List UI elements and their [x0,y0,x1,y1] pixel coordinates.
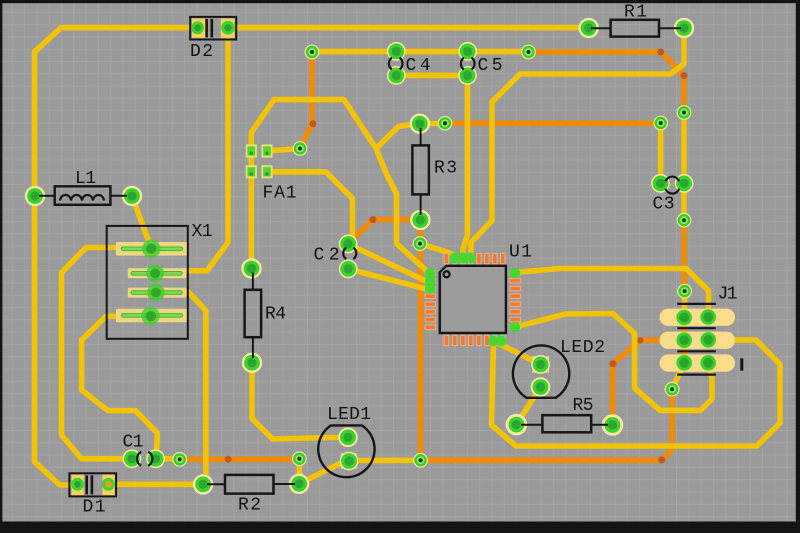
wire top: C1 right pad to via L [156,456,180,462]
wire top: R3 top pad to via D [420,121,445,127]
connector J1 pin pads [676,310,692,326]
junction dot on orange at x312 [310,120,317,127]
resistor R3 pad bottom [410,210,430,230]
capacitor C5 silk arcs [461,58,475,70]
resistor R3 outline [412,128,429,215]
wire top: FA1 left column up, across y99, down to U1 left pad1 [251,100,429,273]
wire top: D2 right pad to R1 left pad [236,25,586,31]
wire top: via C to FA1 top-right pad [267,149,300,152]
resistor R2 outline [207,475,295,494]
wire top: D1 right pad to R2 left pad [108,481,203,487]
wire top: C2 top pad to U1 left pad2 [349,244,429,280]
connector J1 pad slots [660,309,736,326]
wire top: D2 right pad down to X1 pad2 [185,31,228,271]
connector J1 silk lines [677,304,716,375]
junction dot left of J1 pin2 [637,337,643,343]
capacitor C2 pad bottom [339,260,358,279]
wire bottom: via D right of R3 to via E above C3 [445,121,661,127]
LED2 square pad backing [532,356,549,373]
junction dot left bend above C3 [657,49,664,56]
LED1 outline [318,425,374,477]
via L [172,452,187,467]
SILK [39,17,716,497]
svg-text:C1: C1 [123,433,144,453]
wire top: LED1 bottom pad to via K [349,457,415,463]
wire top: via E down to C3 left pad [658,123,664,183]
wire bottom: via A to via C (left of C4) [300,53,312,149]
svg-text:FA1: FA1 [263,184,297,204]
wire top: X1 pad4 left staircase down to C1 right pad [82,316,158,459]
wire bottom: via B right of C5 to via F above C3 [529,52,685,113]
capacitor C3 pad left [651,174,670,193]
wire top: R2 right pad up to via M [297,459,303,484]
LED1 pad cathode [340,452,359,471]
via D [438,116,453,131]
resistor R5 pad left [506,414,528,436]
LED2 pad anode [531,355,550,374]
header X1 outline [107,226,188,339]
svg-text:L1: L1 [75,169,96,189]
svg-text:LED1: LED1 [327,405,371,425]
fuse FA1 pads [246,144,257,157]
resistor R2 pad left [193,474,213,494]
wire top: via A through C4/C5 top pads to via B [312,49,529,55]
svg-text:D2: D2 [190,42,213,62]
junction dot left of R3 bottom [370,216,377,223]
wire top: C4 bottom pad to C5 bottom pad, down into U1 top pad3 [396,75,467,256]
svg-text:R5: R5 [573,396,594,416]
via E [653,116,668,131]
wire top: D2 left pad left-down the west edge to D1 left pad [35,28,190,485]
diode D1 outline [69,473,116,496]
wire top: U1 right pad1 across y268 down to J1 pin1 right [515,269,709,318]
resistor R4 pad top [241,258,261,278]
via I [665,382,680,397]
wire top: R2 right pad up-right to LED1 bottom pad [299,461,349,484]
wire top: FA1 left pads column down to R4 top pad [249,147,255,269]
resistor R3 pad top [410,114,430,134]
svg-text:D1: D1 [83,498,106,518]
wire top: J1 pin2 right around bottom-right loop to U1 bottom pad7 [492,340,781,446]
via F [677,105,692,120]
junction dot below J1 on y460 run [658,456,665,463]
IC U1 body [440,266,506,333]
via M [292,451,307,466]
label I pin marker [740,358,743,370]
wire top: X1 pad1 left, down x61 column to C1 left pad [62,248,132,459]
capacitor C4 silk arcs [389,58,403,70]
resistor R5 outline [521,415,608,432]
diode D2 pads [191,19,235,38]
wire top: branch to R3 top pad [377,124,414,148]
wire top: R1 right pad down-left to x492 column into U1 top pad4 [471,31,684,256]
capacitor C1 pad left [122,449,141,468]
capacitor C1 silk arcs [137,452,152,466]
resistor R1 pad left [579,18,599,38]
resistor R5 pad right [602,414,624,436]
capacitor C5 pad bottom [458,66,477,85]
junction dot above R5 right pad [609,360,616,367]
svg-text:X1: X1 [192,222,213,242]
header X1 pad holes [142,240,160,258]
LED2 pad cathode [531,377,551,397]
capacitor C2 silk arcs [343,248,356,259]
wire top: via H down to J1 pin1 left [682,291,688,317]
resistor R1 outline [591,20,681,37]
ORANGE-TRACES [180,49,688,464]
wire top: X1 pad3 right, down x205 column to R2 left pad [186,292,206,484]
via G [677,213,692,228]
wire top: via F down to C3 right pad [681,113,687,184]
wire top: FA1 bottom-right pad to C2 top pad [267,172,353,244]
wire top: LED2 bottom pad to R5 left pad [516,387,540,425]
resistor R4 outline [245,273,262,359]
via B [521,45,536,60]
svg-text:U1: U1 [509,243,532,263]
resistor R4 pad bottom [242,353,262,373]
wire top: C2 bottom pad to U1 left pad3 [349,269,429,288]
diode D2 outline [190,17,236,40]
svg-text:LED2: LED2 [560,338,605,358]
header X1 slot pads [116,242,188,256]
capacitor C4 pad bottom [387,66,406,85]
svg-text:R1: R1 [624,3,647,23]
capacitor C1 pad right [146,449,165,468]
wire top: L1 right pad down to X1 pad1 [132,196,151,249]
inductor L1 pad left [25,186,45,206]
junction dot between via L and via M [225,456,232,463]
wire bottom: C2 top pad to R3 bottom pad then down to via K [348,220,420,461]
LED1 pad anode [338,428,358,448]
junction dot right bend above C3 [681,72,688,79]
wire bottom: via L to via M above R2 [180,456,300,462]
svg-text:R2: R2 [238,496,261,516]
LED1 square pad backing [341,453,357,469]
wire bottom: via K along y460 to via I below J1 [421,389,672,460]
IC U1 smd pads [444,253,505,263]
svg-text:J1: J1 [718,285,738,305]
IC U1 connected pad rings [425,253,520,347]
capacitor C2 pad top [339,235,358,254]
resistor R1 pad right [674,18,694,38]
wire top: C3 right pad down to via G [681,183,687,220]
via A [305,45,320,60]
wire top: R4 bottom pad to LED1 top pad [252,363,348,439]
wire top: U1 right pad8 loop around J1 bottom to J1 pin3 right [514,314,712,411]
svg-text:R3: R3 [434,159,457,179]
LED2 outline [513,345,569,397]
via J [413,236,428,251]
wire top: via J diagonal up to U1 top pad2 [421,244,455,258]
YELLOW-TRACES [35,28,781,485]
via C [293,141,308,156]
wire bottom: R5 right pad up to J1 pin2 left [613,340,685,425]
svg-text:C3: C3 [653,195,675,215]
wire top: J1 pin3 left to via I [672,363,684,390]
capacitor C4 pad top [387,42,406,61]
PADS [25,18,735,496]
via H [677,284,692,299]
inductor L1 outline [39,186,127,205]
capacitor C5 pad top [458,42,477,61]
svg-text:R4: R4 [265,305,286,325]
wire bottom: via G down to via H [681,220,687,291]
diode D1 pads [71,475,115,496]
wire bottom: J1 left pin column via H down to pin3 [681,291,687,363]
resistor R2 pad right [289,474,309,494]
capacitor C3 pad right [675,174,694,193]
capacitor C3 silk arcs [666,177,680,194]
via K [413,453,428,468]
wire top: U1 bottom pad8 to LED2 top pad [499,344,541,365]
inductor L1 pad right [122,186,142,206]
